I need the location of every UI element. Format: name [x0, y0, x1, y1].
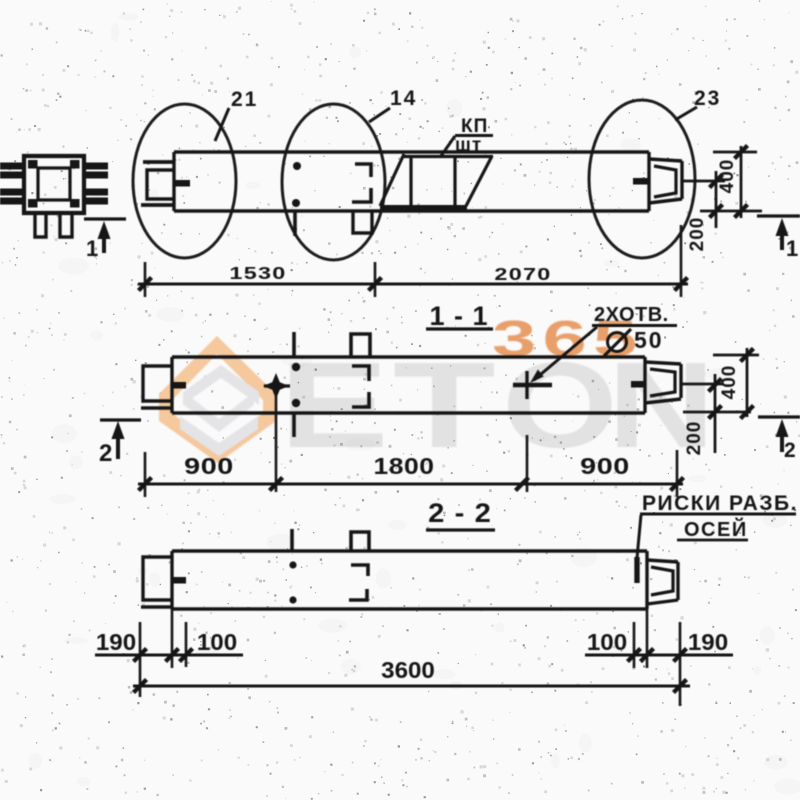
- svg-text:1530: 1530: [229, 263, 286, 283]
- svg-text:2: 2: [99, 440, 113, 467]
- svg-text:21: 21: [231, 88, 258, 111]
- svg-text:50: 50: [634, 327, 664, 353]
- svg-text:1 - 1: 1 - 1: [429, 301, 488, 331]
- svg-text:190: 190: [688, 630, 728, 655]
- svg-text:2: 2: [784, 439, 797, 462]
- svg-text:КП: КП: [461, 116, 488, 137]
- svg-text:шт: шт: [455, 135, 482, 156]
- svg-text:1800: 1800: [373, 455, 434, 480]
- svg-text:2 - 2: 2 - 2: [428, 498, 492, 528]
- svg-text:100: 100: [587, 630, 627, 655]
- svg-text:190: 190: [96, 630, 136, 655]
- svg-text:23: 23: [694, 87, 721, 110]
- svg-text:200: 200: [687, 217, 708, 252]
- svg-text:900: 900: [184, 453, 234, 480]
- svg-text:РИСКИ РАЗБ.: РИСКИ РАЗБ.: [642, 492, 798, 515]
- svg-text:3600: 3600: [381, 658, 435, 683]
- svg-text:900: 900: [580, 453, 630, 480]
- svg-text:1: 1: [86, 236, 99, 261]
- svg-text:400: 400: [717, 159, 738, 194]
- svg-text:ОСЕЙ: ОСЕЙ: [684, 517, 748, 541]
- svg-text:400: 400: [719, 365, 740, 400]
- svg-text:200: 200: [684, 421, 705, 456]
- svg-text:1: 1: [786, 236, 799, 261]
- svg-text:14: 14: [390, 87, 417, 110]
- svg-text:2ХОТВ.: 2ХОТВ.: [594, 304, 669, 326]
- svg-text:100: 100: [197, 630, 237, 655]
- svg-text:2070: 2070: [494, 264, 551, 284]
